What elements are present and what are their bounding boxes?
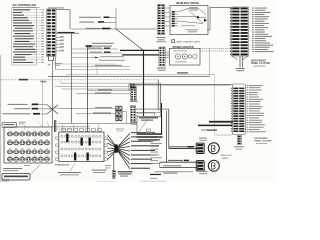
svg-text:A/C CONTROLLER: A/C CONTROLLER <box>13 3 36 7</box>
svg-text:INSTRUMENT: INSTRUMENT <box>251 61 267 63</box>
svg-text:HEADLIGHT: HEADLIGHT <box>221 154 233 157</box>
svg-text:FUSE BLOCK: FUSE BLOCK <box>55 164 70 166</box>
svg-text:HEADLIGHT SWITCH: HEADLIGHT SWITCH <box>176 2 199 5</box>
svg-text:PANEL CLUSTER: PANEL CLUSTER <box>251 62 270 65</box>
svg-text:PANEL CLUSTER: PANEL CLUSTER <box>254 140 272 143</box>
svg-text:PARK & MARKER LAMPS: PARK & MARKER LAMPS <box>177 40 201 43</box>
svg-text:LAMPS: LAMPS <box>222 157 229 160</box>
svg-text:A/C: A/C <box>48 63 52 66</box>
